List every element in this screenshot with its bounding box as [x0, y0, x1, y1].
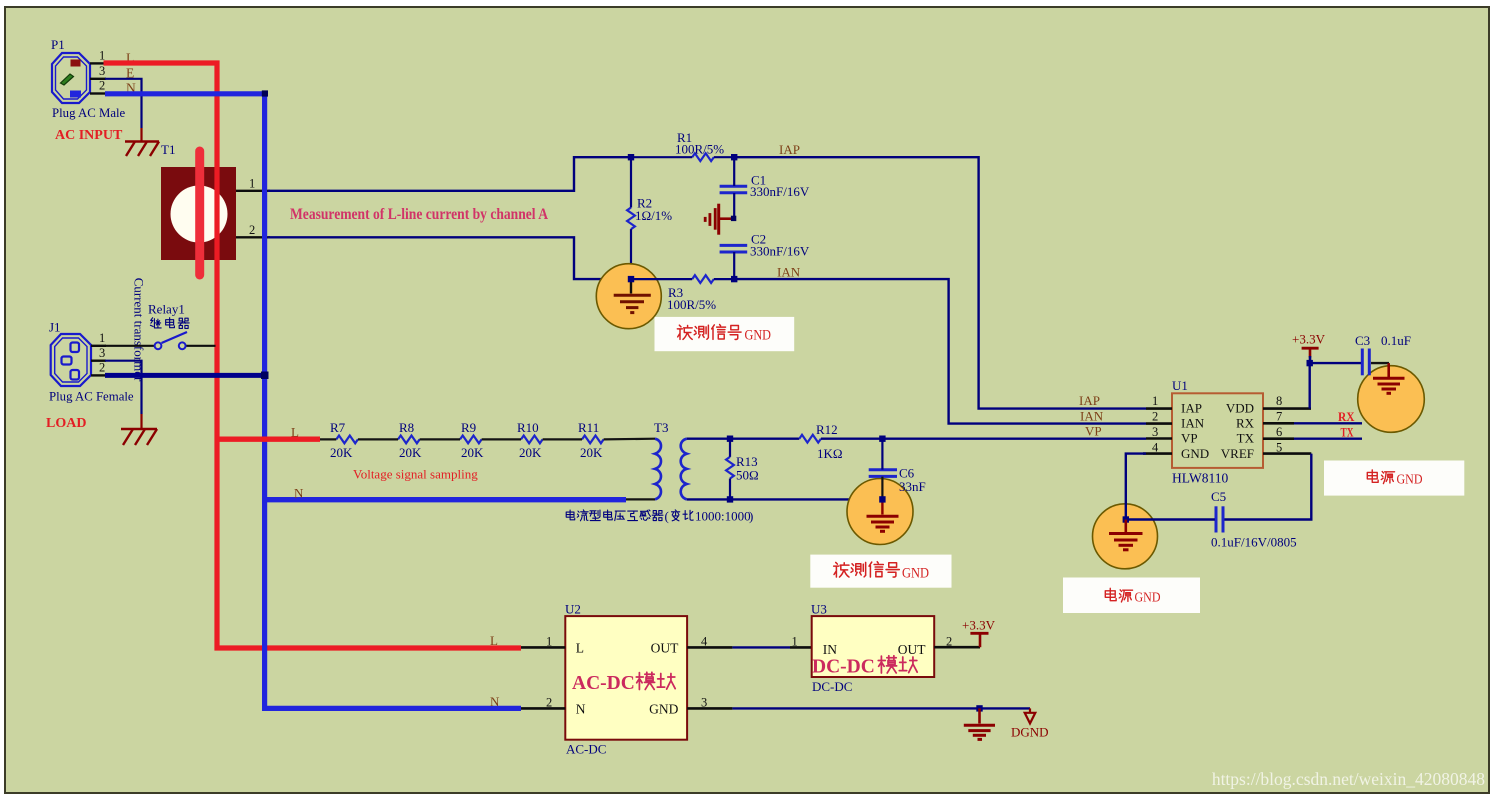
svg-text:Plug AC Female: Plug AC Female: [49, 390, 134, 404]
svg-text:2: 2: [249, 223, 255, 237]
callout box 电源GND (left): [1063, 578, 1200, 614]
svg-text:IN: IN: [823, 642, 837, 657]
svg-text:U1: U1: [1172, 378, 1188, 393]
callout box 电源GND (right): [1324, 461, 1464, 496]
U1 pin 7: [1263, 422, 1294, 425]
svg-text:): ): [749, 508, 753, 523]
wire U2 OUT to U3 IN: [732, 646, 790, 648]
wire VP from R12 to U1: [821, 438, 1146, 440]
wire VDD: [1310, 363, 1361, 409]
capacitor C5: [1216, 506, 1223, 532]
svg-text:AC-DC: AC-DC: [566, 742, 606, 757]
resistor R1: [692, 153, 714, 161]
svg-text:DGND: DGND: [1011, 725, 1049, 740]
svg-text:1: 1: [99, 331, 105, 345]
pin 3 of P1: [90, 78, 106, 80]
current transformer CT body: [161, 167, 236, 260]
svg-text:+3.3V: +3.3V: [1292, 332, 1326, 347]
signal ground circle at R2: [614, 279, 651, 313]
svg-text:Relay1: Relay1: [148, 302, 185, 317]
wire R1 leads: [631, 156, 692, 158]
U3 pin 2: [934, 646, 980, 649]
svg-text:RX: RX: [1236, 416, 1255, 431]
earth ground at DGND rail: [964, 708, 995, 739]
signal ground circle at C6: [847, 479, 913, 545]
U1 pin 4: [1143, 452, 1172, 455]
junction dots R1/R3 row: [628, 154, 634, 160]
wire IAP: [734, 157, 1146, 408]
svg-text:TX: TX: [1237, 431, 1255, 446]
svg-text:OUT: OUT: [898, 642, 926, 657]
svg-text:C3: C3: [1355, 333, 1370, 348]
connector J1 (Plug AC Female): [51, 334, 91, 386]
svg-text:P1: P1: [51, 37, 65, 52]
module U2 AC-DC: [565, 616, 687, 740]
svg-text:L: L: [490, 633, 498, 648]
U2 pin 3: [687, 707, 732, 710]
svg-text:Voltage signal sampling: Voltage signal sampling: [353, 467, 478, 482]
wire R2 leads: [630, 157, 632, 207]
svg-text:VP: VP: [1085, 424, 1102, 439]
svg-text:AC-DC: AC-DC: [572, 673, 635, 694]
svg-text:Plug AC Male: Plug AC Male: [52, 106, 126, 120]
svg-text:HLW8110: HLW8110: [1172, 471, 1228, 486]
svg-text:T1: T1: [161, 142, 175, 157]
junction on GND wire: [976, 705, 982, 711]
chassis ground T1: [125, 142, 159, 157]
wire CT pin1 to R1/R2 node: [268, 157, 631, 191]
svg-text:R12: R12: [816, 422, 838, 437]
svg-text:20K: 20K: [461, 445, 484, 460]
resistor R9: [460, 436, 482, 444]
svg-text:1000:1000: 1000:1000: [695, 508, 751, 523]
svg-text:20K: 20K: [519, 445, 542, 460]
CT pin 2: [236, 236, 270, 238]
wire R3 leads / IAN row: [631, 278, 692, 280]
capacitor C1: [720, 186, 748, 193]
caption 电流型电压互感器(变比1000:1000）: [566, 510, 663, 521]
junction dots sampling secondary: [727, 436, 733, 442]
svg-text:N: N: [294, 486, 304, 501]
U1 pin 8: [1263, 407, 1311, 410]
U1 pin 6: [1263, 437, 1294, 440]
svg-text:20K: 20K: [399, 445, 422, 460]
svg-text:U3: U3: [811, 602, 827, 617]
svg-text:1: 1: [1152, 394, 1158, 408]
svg-text:IAP: IAP: [1079, 393, 1100, 408]
svg-text:IAP: IAP: [779, 142, 800, 157]
wire J1 pin2 thick to N bus: [105, 373, 267, 378]
svg-text:L: L: [291, 425, 299, 440]
svg-text:33nF: 33nF: [899, 479, 926, 494]
svg-text:1: 1: [546, 635, 552, 649]
svg-text:DC-DC: DC-DC: [812, 679, 852, 694]
svg-text:2: 2: [1152, 409, 1158, 423]
wire L thick red from P1 pin1 down to AC-DC: [104, 63, 522, 648]
svg-text:2: 2: [546, 696, 552, 710]
svg-text:N: N: [490, 694, 500, 709]
svg-text:3: 3: [701, 696, 707, 710]
svg-text:2: 2: [99, 79, 105, 93]
resistor R12: [799, 435, 821, 443]
svg-text:TX: TX: [1341, 424, 1354, 439]
module U3 DC-DC: [812, 616, 935, 677]
resistor R2 (vertical): [627, 208, 635, 230]
svg-text:GND: GND: [745, 328, 772, 344]
wire C5 to GND pin4: [1126, 454, 1215, 520]
svg-text:20K: 20K: [580, 445, 603, 460]
svg-text:VP: VP: [1181, 431, 1198, 446]
svg-text:1KΩ: 1KΩ: [817, 446, 843, 461]
svg-text:2: 2: [946, 635, 952, 649]
svg-text:AC INPUT: AC INPUT: [55, 128, 123, 143]
resistor R13 (vertical): [726, 457, 734, 479]
signal ground circle at R2: [596, 264, 661, 329]
U2 pin 1: [521, 646, 565, 649]
svg-text:50Ω: 50Ω: [736, 468, 759, 483]
resistor R8: [398, 436, 420, 444]
connector P1 (Plug AC Male): [52, 53, 90, 103]
svg-text:1: 1: [792, 635, 798, 649]
capacitor C3: [1362, 349, 1369, 376]
svg-text:R11: R11: [578, 420, 599, 435]
svg-text:Measurement of L-line current: Measurement of L-line current by channel…: [290, 206, 549, 223]
svg-text:GND: GND: [1135, 591, 1161, 606]
svg-text:7: 7: [1276, 409, 1282, 423]
CT core window: [171, 186, 228, 243]
wire IAN: [734, 279, 1146, 424]
resistor R3: [692, 275, 714, 283]
R13 leads: [729, 439, 731, 457]
resistor R10: [521, 436, 543, 444]
T3 secondary bottom wire: [687, 498, 883, 500]
wire GND to DGND: [732, 707, 1030, 709]
pin 2 of P1: [90, 92, 106, 94]
svg-text:VREF: VREF: [1221, 446, 1254, 461]
power +3.3V at U3: [979, 633, 982, 647]
U1 pin 1: [1146, 407, 1172, 410]
wire VREF to C5: [1225, 454, 1312, 520]
svg-text:R9: R9: [461, 420, 476, 435]
svg-text:J1: J1: [49, 320, 61, 335]
earth ground between C1 and C2: [705, 204, 734, 235]
svg-text:3: 3: [99, 64, 105, 78]
wire RX: [1294, 422, 1362, 424]
svg-text:1: 1: [249, 177, 255, 191]
wire E from P1 pin3 to ground T1: [105, 79, 142, 128]
svg-text:330nF/16V: 330nF/16V: [750, 244, 810, 259]
svg-text:(: (: [665, 508, 669, 523]
power ground circle at C3: [1358, 366, 1425, 433]
svg-text:1Ω/1%: 1Ω/1%: [635, 208, 672, 223]
svg-text:https://blog.csdn.net/weixin_4: https://blog.csdn.net/weixin_42080848: [1212, 769, 1485, 789]
svg-text:LOAD: LOAD: [46, 416, 86, 431]
svg-text:R8: R8: [399, 420, 414, 435]
wire TX: [1294, 438, 1362, 440]
svg-text:IAN: IAN: [1181, 416, 1205, 431]
svg-text:0.1uF/16V/0805: 0.1uF/16V/0805: [1211, 534, 1297, 549]
svg-text:3: 3: [99, 346, 105, 360]
svg-text:GND: GND: [1397, 472, 1423, 487]
power ground circle at pin4: [1093, 504, 1158, 569]
DGND power port arrow: [1025, 708, 1036, 723]
pin 1 of J1: [91, 345, 106, 347]
U2 pin 4: [687, 646, 732, 649]
capacitor C2: [720, 245, 748, 252]
pin 3 of J1: [91, 360, 106, 362]
C1 leads: [733, 157, 735, 186]
svg-text:T3: T3: [654, 420, 668, 435]
svg-text:IAP: IAP: [1181, 401, 1202, 416]
junction on N wire at P1: [262, 90, 268, 96]
svg-text:8: 8: [1276, 394, 1282, 408]
svg-text:100R/5%: 100R/5%: [667, 297, 716, 312]
svg-text:N: N: [576, 702, 586, 717]
svg-text:2: 2: [99, 361, 105, 375]
svg-text:3: 3: [1152, 425, 1158, 439]
svg-text:RX: RX: [1338, 409, 1355, 424]
pin 1 of P1: [90, 62, 104, 64]
wire J1 pin3 to ground: [105, 361, 142, 414]
U2 pin 2: [521, 707, 565, 710]
wire N branch to voltage sampling: [262, 497, 626, 502]
wire N thick blue from P1 pin2 down to AC-DC: [105, 94, 521, 709]
capacitor C6: [869, 470, 897, 477]
svg-text:GND: GND: [902, 566, 929, 582]
svg-text:C5: C5: [1211, 489, 1226, 504]
C2 leads: [733, 252, 735, 279]
svg-text:4: 4: [1152, 440, 1159, 454]
svg-text:DC-DC: DC-DC: [812, 657, 875, 678]
resistor R7: [336, 436, 358, 444]
wire L branch to sampling resistors: [215, 437, 320, 442]
resistor R11: [582, 436, 604, 444]
svg-text:330nF/16V: 330nF/16V: [750, 184, 810, 199]
IC U1 HLW8110: [1172, 393, 1263, 468]
svg-text:L: L: [576, 641, 584, 656]
pin 2 of J1: [91, 374, 106, 376]
callout box 被测信号GND (upper): [655, 317, 795, 351]
U1 pin 2: [1146, 422, 1172, 425]
svg-text:R7: R7: [330, 420, 346, 435]
svg-text:GND: GND: [649, 702, 678, 717]
svg-text:GND: GND: [1181, 446, 1209, 461]
svg-text:6: 6: [1276, 425, 1282, 439]
svg-text:R10: R10: [517, 420, 539, 435]
svg-text:5: 5: [1276, 440, 1282, 454]
U1 pin 3: [1146, 437, 1172, 440]
svg-text:IAN: IAN: [1080, 409, 1104, 424]
svg-text:VDD: VDD: [1226, 401, 1254, 416]
CT pin 1: [236, 190, 270, 192]
svg-text:Current transformer: Current transformer: [132, 278, 147, 382]
svg-text:0.1uF: 0.1uF: [1381, 333, 1411, 348]
svg-text:IAN: IAN: [777, 265, 801, 280]
svg-text:U2: U2: [565, 602, 581, 617]
chassis ground at J1: [121, 429, 157, 445]
callout box 被测信号GND (lower): [810, 555, 951, 588]
C6 leads: [881, 439, 883, 470]
CT primary conductor bar: [195, 151, 204, 275]
wire CT pin2 to IAN row: [268, 237, 631, 279]
svg-text:100R/5%: 100R/5%: [675, 142, 724, 157]
svg-text:+3.3V: +3.3V: [962, 618, 996, 633]
svg-text:4: 4: [701, 635, 708, 649]
T3 secondary top wire: [687, 438, 800, 440]
wires between sampling resistors: [320, 439, 655, 500]
svg-text:20K: 20K: [330, 445, 353, 460]
svg-text:OUT: OUT: [651, 641, 679, 656]
U1 pin 5: [1263, 452, 1311, 455]
